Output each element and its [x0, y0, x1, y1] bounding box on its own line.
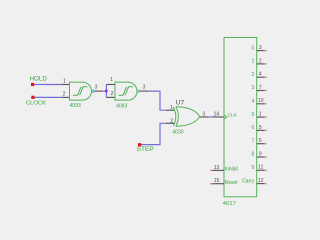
svg-text:3: 3 — [95, 85, 98, 91]
wire U?:B out to U7 pin1 — [149, 91, 166, 110]
svg-text:3: 3 — [202, 111, 205, 117]
output 5 pin 1 — [252, 112, 267, 118]
svg-text:0: 0 — [252, 45, 255, 51]
svg-text:4017: 4017 — [223, 201, 236, 207]
wire CLOCK to U?:A pin2 — [34, 96, 62, 98]
wire junction vertical — [105, 85, 107, 98]
svg-text:1: 1 — [259, 112, 262, 118]
CLK clock symbol — [224, 115, 227, 119]
svg-text:4093: 4093 — [70, 103, 81, 109]
svg-text:12: 12 — [258, 178, 264, 184]
svg-text:3: 3 — [143, 84, 146, 90]
xor gate U7 4030 — [166, 99, 208, 135]
output 7 pin 6 — [252, 138, 267, 144]
svg-text:STEP: STEP — [137, 146, 155, 153]
terminal STEP — [137, 143, 155, 153]
terminal CLOCK — [26, 96, 46, 107]
output 3 pin 7 — [252, 85, 267, 91]
svg-text:11: 11 — [258, 165, 263, 171]
svg-text:4: 4 — [252, 99, 255, 105]
svg-text:Carry: Carry — [242, 178, 255, 184]
pin 15 Reset — [210, 178, 238, 186]
nand gate U?:A 4093 — [62, 79, 103, 110]
svg-text:14: 14 — [214, 111, 220, 117]
svg-text:13: 13 — [214, 165, 220, 171]
pin 14 stub — [212, 116, 224, 118]
svg-text:1: 1 — [110, 77, 113, 83]
output 4 pin 10 — [252, 98, 267, 104]
output 8 pin 9 — [252, 151, 267, 157]
output 0 pin 3 — [252, 45, 267, 51]
svg-text:3: 3 — [259, 45, 262, 51]
svg-text:CLOCK: CLOCK — [26, 101, 46, 107]
wire U?:A out to junction — [103, 90, 107, 92]
svg-text:9: 9 — [252, 165, 255, 171]
svg-text:CLK: CLK — [228, 112, 238, 117]
svg-text:2: 2 — [170, 118, 173, 124]
svg-text:1: 1 — [170, 105, 173, 111]
svg-text:3: 3 — [252, 85, 255, 91]
junction node — [105, 90, 108, 93]
svg-text:9: 9 — [259, 151, 262, 157]
terminal HOLD — [30, 76, 48, 87]
svg-text:4030: 4030 — [172, 130, 183, 136]
output 2 pin 4 — [252, 72, 267, 78]
pin 13 Inhibit — [210, 165, 239, 173]
output Carry pin 12 — [242, 178, 267, 184]
svg-text:1: 1 — [252, 59, 255, 65]
svg-text:1: 1 — [63, 79, 66, 85]
output 9 pin 11 — [252, 165, 267, 171]
svg-text:7: 7 — [259, 85, 262, 91]
svg-text:10: 10 — [258, 98, 264, 104]
svg-text:5: 5 — [259, 125, 262, 131]
output 6 pin 5 — [252, 125, 267, 131]
svg-text:2: 2 — [259, 58, 262, 64]
wire HOLD to U?:A pin1 — [34, 84, 62, 86]
svg-text:7: 7 — [252, 138, 255, 144]
wire STEP to U7 pin2 — [141, 123, 166, 144]
output 1 pin 2 — [252, 58, 267, 64]
svg-text:HOLD: HOLD — [30, 76, 48, 83]
svg-text:15: 15 — [214, 178, 220, 184]
svg-text:Inhibit: Inhibit — [225, 167, 239, 173]
svg-text:2: 2 — [111, 91, 114, 97]
svg-text:6: 6 — [252, 125, 255, 131]
svg-text:2: 2 — [252, 72, 255, 78]
wire U7 out to 4017 CLK — [208, 116, 212, 118]
svg-text:Reset: Reset — [225, 180, 239, 186]
svg-text:2: 2 — [63, 91, 66, 97]
counter U? 4017 body — [223, 38, 257, 208]
svg-text:4: 4 — [259, 72, 262, 78]
nand gate U?:B 4093 — [106, 77, 148, 110]
svg-text:8: 8 — [252, 152, 255, 158]
svg-text:U7: U7 — [176, 99, 185, 106]
svg-text:4093: 4093 — [116, 104, 127, 110]
svg-text:6: 6 — [259, 138, 262, 144]
svg-text:5: 5 — [252, 112, 255, 118]
